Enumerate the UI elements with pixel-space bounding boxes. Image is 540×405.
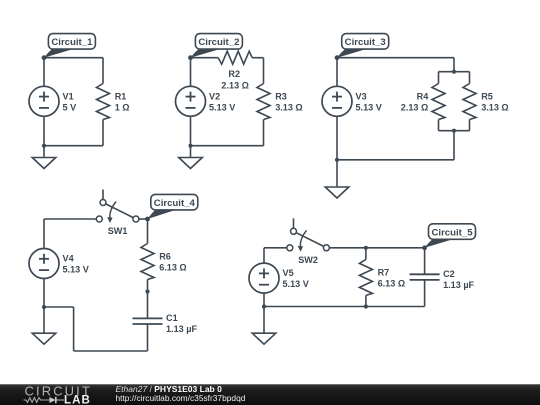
svg-text:V1: V1 — [63, 91, 74, 101]
svg-text:5.13 V: 5.13 V — [209, 102, 235, 112]
voltage source V1 — [29, 86, 59, 116]
wire C2 right upper — [263, 58, 265, 84]
ground — [32, 158, 56, 169]
svg-text:R7: R7 — [378, 267, 390, 277]
node C1 bottom junction — [42, 144, 46, 148]
wire C4 to R6 — [147, 219, 149, 244]
wire R7 bottom stub — [365, 295, 367, 306]
net label callout Circuit_5 — [425, 224, 476, 248]
svg-text:C2: C2 — [443, 269, 455, 279]
wire C2 top left — [191, 57, 219, 59]
svg-text:Circuit_3: Circuit_3 — [345, 37, 386, 48]
svg-text:5.13 V: 5.13 V — [63, 265, 89, 275]
svg-text:3.13 Ω: 3.13 Ω — [481, 103, 509, 113]
ground — [179, 158, 203, 169]
wire V2 bottom stub — [190, 116, 192, 145]
node C3 bottom junction — [335, 158, 339, 162]
wire V3 bottom stub — [336, 116, 338, 160]
node C5 ground junction — [262, 304, 266, 308]
wire R4 bottom stub — [438, 120, 440, 131]
node R6-C1 junction — [145, 289, 149, 293]
wire C3 feed — [453, 58, 455, 72]
wire C1 right lower — [102, 120, 104, 146]
voltage source V4 — [29, 249, 59, 279]
wire C4 bottom — [74, 350, 148, 352]
svg-text:5 V: 5 V — [63, 102, 77, 112]
wire C4 to ground node — [44, 306, 74, 308]
wire V4 bottom stub — [43, 279, 45, 308]
svg-text:6.13 Ω: 6.13 Ω — [378, 278, 406, 288]
net label callout Circuit_3 — [337, 34, 389, 58]
wire C1 top — [44, 57, 103, 59]
voltage source V3 — [322, 86, 352, 116]
svg-text:5.13 V: 5.13 V — [356, 102, 382, 112]
wire V3 top stub — [336, 58, 338, 87]
wire V1 top stub — [43, 58, 45, 87]
svg-text:R3: R3 — [275, 92, 287, 102]
svg-text:R4: R4 — [417, 92, 430, 102]
svg-text:Circuit_4: Circuit_4 — [154, 198, 196, 209]
CircuitLab logo — [24, 384, 92, 405]
svg-text:3.13 Ω: 3.13 Ω — [275, 103, 303, 113]
resistor R5 — [463, 84, 476, 120]
svg-text:1.13 µF: 1.13 µF — [443, 280, 474, 290]
ground — [32, 333, 56, 344]
voltage source V5 — [249, 263, 279, 293]
wire C5 left riser — [263, 248, 265, 263]
svg-text:SW2: SW2 — [298, 255, 318, 265]
svg-text:V5: V5 — [283, 268, 294, 278]
wire C3 top bracket — [439, 71, 470, 73]
net label callout Circuit_1 — [44, 34, 95, 58]
svg-text:1.13 µF: 1.13 µF — [166, 324, 197, 334]
wire C3 down — [453, 131, 455, 160]
resistor R1 — [97, 84, 110, 120]
wire C1 bottom — [44, 145, 103, 147]
wire C3 top — [337, 57, 454, 59]
wire C2 right lower — [263, 120, 265, 146]
svg-text:5.13 V: 5.13 V — [283, 279, 309, 289]
wire R4 top stub — [438, 72, 440, 84]
svg-text:1 Ω: 1 Ω — [115, 103, 130, 113]
node Circuit_5 anchor — [422, 245, 427, 250]
wire C5 top — [329, 247, 424, 249]
svg-text:V2: V2 — [209, 91, 220, 101]
switch SW1 (SPDT) — [96, 190, 139, 224]
wire C1 right upper — [102, 58, 104, 84]
wire C4 ground stem — [43, 307, 45, 333]
wire V5 bottom stub — [263, 293, 265, 306]
capacitor C1 — [133, 318, 163, 324]
ground — [252, 333, 276, 344]
wire C3 bottom — [337, 159, 454, 161]
wire C5 bottom — [264, 306, 425, 308]
net label callout Circuit_2 — [191, 34, 243, 58]
net label callout Circuit_4 — [148, 194, 198, 219]
resistor R4 — [432, 84, 445, 120]
wire C5 to switch — [264, 247, 287, 249]
wire C5 to C2cap — [424, 248, 426, 274]
svg-text:R5: R5 — [481, 92, 493, 102]
svg-text:C1: C1 — [166, 313, 178, 323]
node Circuit_2 anchor — [188, 55, 193, 60]
svg-text:V3: V3 — [356, 91, 367, 101]
wire R6 to C1cap — [147, 280, 149, 319]
wire C4 bottom riser — [73, 307, 75, 351]
wire C4 to switch — [44, 218, 96, 220]
node C3 parallel bottom — [452, 129, 456, 133]
wire R5 top stub — [469, 72, 471, 84]
resistor R2 — [218, 51, 252, 64]
node C4 ground junction — [42, 305, 46, 309]
node C3 parallel top — [452, 70, 456, 74]
wire V1 bottom stub — [43, 116, 45, 145]
ground — [325, 187, 349, 198]
resistor R7 — [359, 259, 372, 295]
node Circuit_1 anchor — [42, 55, 47, 60]
svg-text:R2: R2 — [228, 69, 240, 79]
svg-text:Circuit_1: Circuit_1 — [51, 37, 93, 48]
wire C3 ground stem — [336, 160, 338, 187]
svg-text:LAB: LAB — [64, 395, 91, 405]
node Circuit_3 anchor — [335, 55, 340, 60]
wire SW1 common to node — [139, 218, 148, 220]
svg-text:6.13 Ω: 6.13 Ω — [159, 263, 187, 273]
resistor R6 — [141, 244, 154, 280]
svg-text:Circuit_5: Circuit_5 — [431, 227, 473, 238]
svg-text:2.13 Ω: 2.13 Ω — [221, 81, 249, 91]
wire C4 left riser — [43, 219, 45, 249]
node C5 R7 top — [364, 246, 368, 250]
footer title text — [116, 384, 246, 403]
wire R5 bottom stub — [469, 120, 471, 131]
wire C2cap down — [424, 280, 426, 307]
voltage source V2 — [176, 86, 206, 116]
wire C2 bottom — [191, 145, 264, 147]
wire V2 top stub — [190, 58, 192, 87]
wire C2 top right — [252, 57, 263, 59]
wire C1cap down — [147, 324, 149, 351]
svg-text:Circuit_2: Circuit_2 — [198, 37, 239, 48]
svg-text:2.13 Ω: 2.13 Ω — [401, 103, 429, 113]
capacitor C2 — [410, 274, 440, 280]
wire C5 ground stem — [263, 307, 265, 334]
svg-text:SW1: SW1 — [108, 226, 128, 236]
wire C3 bottom bracket — [439, 130, 470, 132]
node C5 R7 bottom — [364, 304, 368, 308]
svg-text:http://circuitlab.com/c35sfr37: http://circuitlab.com/c35sfr37bpdqd — [116, 393, 246, 403]
node Circuit_4 anchor — [145, 217, 150, 222]
wire R7 top stub — [365, 248, 367, 260]
resistor R3 — [257, 84, 270, 120]
svg-text:R6: R6 — [159, 252, 171, 262]
switch SW2 (SPDT) — [287, 218, 330, 252]
svg-text:R1: R1 — [115, 92, 127, 102]
node C2 bottom junction — [188, 144, 192, 148]
wire C2 ground stem — [190, 146, 192, 158]
wire C1 ground stem — [43, 146, 45, 158]
footer bar — [0, 384, 540, 405]
svg-text:V4: V4 — [63, 254, 75, 264]
